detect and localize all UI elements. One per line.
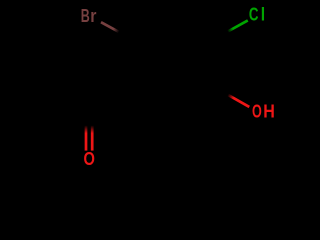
svg-text:l: l [261, 4, 265, 24]
svg-text:H: H [263, 101, 275, 121]
svg-text:B: B [81, 6, 90, 26]
svg-text:C: C [249, 4, 259, 24]
svg-text:r: r [90, 6, 96, 26]
svg-text:O: O [252, 101, 262, 121]
svg-text:O: O [84, 149, 95, 169]
